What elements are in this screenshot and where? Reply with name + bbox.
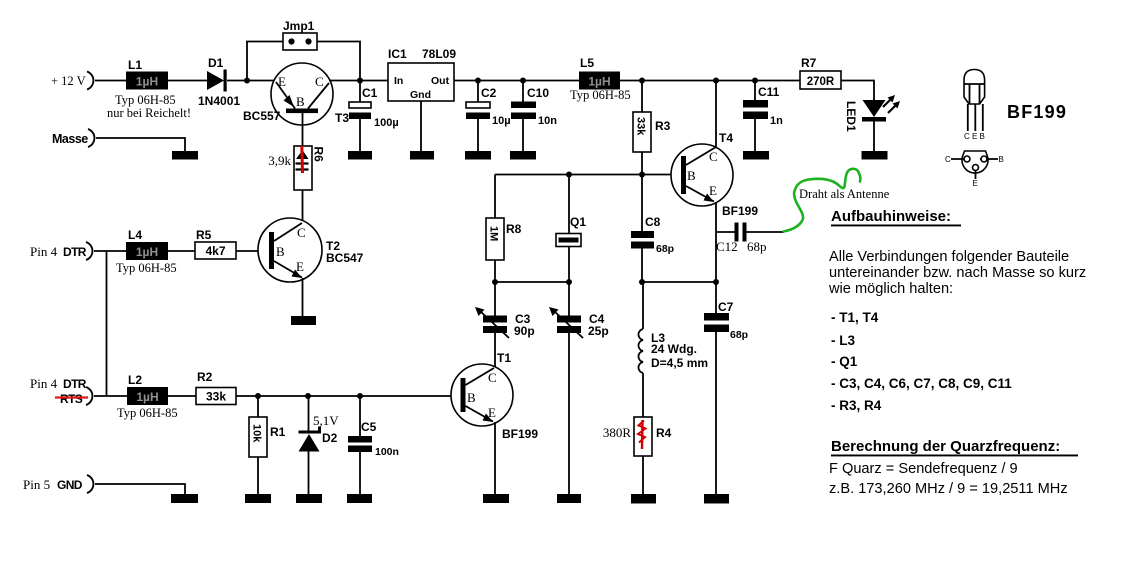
- svg-text:Jmp1: Jmp1: [283, 19, 315, 33]
- wire T2 emitter to ground: [302, 278, 304, 316]
- wire C3 to T1 collector: [494, 333, 496, 368]
- svg-text:F Quarz = Sendefrequenz / 9: F Quarz = Sendefrequenz / 9: [829, 461, 1018, 477]
- svg-text:1N4001: 1N4001: [198, 94, 240, 108]
- svg-text:C5: C5: [361, 420, 377, 434]
- transistor T4 BF199: [671, 131, 758, 218]
- IC1 78L09 regulator: [388, 47, 456, 101]
- ground C5: [347, 494, 372, 503]
- svg-text:In: In: [394, 75, 403, 87]
- text heading Berechnung der Quarzfrequenz: [831, 438, 1078, 456]
- node junction at 247: [244, 78, 250, 84]
- transistor T1 BF199: [451, 351, 538, 441]
- node junction 569,282: [566, 279, 572, 285]
- svg-text:Aufbauhinweise:: Aufbauhinweise:: [831, 208, 951, 225]
- svg-text:E: E: [973, 179, 978, 188]
- wire R5 to T2 base: [236, 250, 269, 252]
- ground Pin5: [171, 494, 198, 503]
- wire Pin5 GND to ground: [95, 484, 185, 494]
- svg-text:R5: R5: [196, 228, 212, 242]
- svg-text:DTR: DTR: [63, 377, 87, 391]
- svg-text:L2: L2: [128, 373, 142, 387]
- svg-text:T4: T4: [719, 131, 733, 145]
- svg-text:Pin 4: Pin 4: [30, 244, 58, 259]
- resistor R2 33k: [196, 370, 236, 405]
- LED LED1: [844, 95, 900, 151]
- svg-text:C: C: [297, 225, 306, 240]
- svg-text:L1: L1: [128, 58, 142, 72]
- capacitor C8 68p: [631, 175, 674, 283]
- svg-text:R7: R7: [801, 56, 817, 70]
- resistor R5 4k7: [195, 228, 236, 259]
- wire R7 to LED: [841, 81, 874, 101]
- capacitor C10 10n: [511, 81, 557, 152]
- svg-text:68p: 68p: [656, 243, 674, 255]
- svg-text:LED1: LED1: [844, 101, 858, 132]
- wire Pin4 DTR to L4: [94, 250, 126, 252]
- svg-text:L4: L4: [128, 228, 142, 242]
- transistor T2 BC547: [258, 218, 364, 282]
- resistor R4 380R: [603, 417, 672, 456]
- resistor R3 33k: [633, 81, 671, 175]
- svg-text:GND: GND: [57, 478, 83, 492]
- svg-text:Pin 4: Pin 4: [30, 376, 58, 391]
- capacitor C12 68p coupling: [716, 223, 784, 255]
- svg-text:+ 12 V: + 12 V: [51, 74, 86, 88]
- node junction 360,396: [357, 393, 363, 399]
- svg-text:T3: T3: [335, 111, 349, 125]
- svg-text:24 Wdg.: 24 Wdg.: [651, 342, 697, 356]
- svg-text:68p: 68p: [730, 329, 748, 341]
- inductor L2: [117, 373, 178, 420]
- svg-text:C12: C12: [716, 239, 738, 254]
- svg-text:E: E: [709, 183, 717, 198]
- svg-text:C1: C1: [362, 86, 378, 100]
- ground C7: [704, 494, 729, 504]
- inductor L5: [570, 56, 631, 102]
- svg-text:C: C: [709, 149, 718, 164]
- svg-text:E: E: [278, 74, 286, 89]
- trimmer capacitor C3 90p: [475, 282, 535, 338]
- svg-text:Gnd: Gnd: [410, 89, 431, 101]
- svg-text:B: B: [687, 168, 696, 183]
- svg-text:10k: 10k: [251, 424, 263, 443]
- svg-text:Berechnung der Quarzfrequenz:: Berechnung der Quarzfrequenz:: [831, 438, 1060, 455]
- node junction at 569,174: [566, 172, 572, 178]
- svg-text:IC1: IC1: [388, 47, 407, 61]
- svg-text:DTR: DTR: [63, 245, 87, 259]
- svg-text:BC557: BC557: [243, 109, 281, 123]
- svg-text:D2: D2: [322, 431, 338, 445]
- svg-text:E: E: [296, 259, 304, 274]
- svg-text:5,1V: 5,1V: [313, 413, 339, 428]
- zener diode D2 5,1V: [299, 396, 340, 494]
- wire bias line y175: [495, 174, 681, 176]
- node junction 308,396: [305, 393, 311, 399]
- node Masse: [52, 129, 94, 147]
- ground T2: [291, 316, 316, 325]
- svg-text:25p: 25p: [588, 324, 609, 338]
- svg-text:100µ: 100µ: [374, 117, 399, 129]
- ground C11: [743, 151, 769, 160]
- svg-text:R1: R1: [270, 425, 286, 439]
- svg-text:C E B: C E B: [964, 132, 985, 141]
- svg-text:90p: 90p: [514, 324, 535, 338]
- svg-text:- C3, C4, C6, C7, C8, C9, C11: - C3, C4, C6, C7, C8, C9, C11: [831, 376, 1012, 391]
- svg-text:C8: C8: [645, 215, 661, 229]
- transistor BF199 package side view: [964, 70, 985, 142]
- node junction at 755: [752, 78, 758, 84]
- svg-text:z.B. 173,260 MHz / 9 = 19,2511: z.B. 173,260 MHz / 9 = 19,2511 MHz: [829, 481, 1068, 497]
- wire line 642-716 y282: [642, 281, 716, 283]
- svg-text:- Q1: - Q1: [831, 354, 858, 369]
- svg-text:Typ 06H-85: Typ 06H-85: [116, 261, 177, 275]
- svg-text:D1: D1: [208, 56, 224, 70]
- wire antenna (green): [784, 169, 861, 232]
- transistor BF199 package bottom view: [945, 151, 1004, 188]
- ground C4: [557, 494, 581, 503]
- node junction at 642,174: [639, 172, 645, 178]
- svg-text:D=4,5 mm: D=4,5 mm: [651, 356, 708, 370]
- svg-text:1µH: 1µH: [136, 390, 158, 404]
- wire R6 to T2 collector: [302, 190, 304, 222]
- ground IC1: [410, 151, 434, 160]
- svg-text:B: B: [276, 244, 285, 259]
- node junction 258,396: [255, 393, 261, 399]
- svg-text:Masse: Masse: [52, 132, 88, 146]
- node Pin 4 DTR: [30, 242, 92, 260]
- svg-text:10n: 10n: [538, 115, 557, 127]
- ground R1: [245, 494, 271, 503]
- svg-text:Typ 06H-85: Typ 06H-85: [117, 406, 178, 420]
- wire C4 to ground: [568, 333, 570, 494]
- ground Masse: [172, 151, 198, 160]
- wire IC1 gnd pin: [420, 101, 422, 151]
- svg-text:B: B: [296, 94, 305, 109]
- wire Pin4 RTS to L2: [94, 395, 127, 397]
- svg-text:nur bei Reichelt!: nur bei Reichelt!: [107, 106, 191, 120]
- svg-text:270R: 270R: [807, 76, 835, 88]
- svg-text:BC547: BC547: [326, 251, 364, 265]
- svg-text:Typ 06H-85: Typ 06H-85: [115, 93, 176, 107]
- wire +12V to L1: [95, 80, 126, 82]
- svg-text:C: C: [945, 155, 951, 164]
- ground C10: [510, 151, 536, 160]
- svg-text:33k: 33k: [635, 117, 647, 136]
- svg-text:380R: 380R: [603, 425, 632, 440]
- wire jumper right leg: [317, 42, 360, 79]
- ground C1: [348, 151, 372, 160]
- ground T1: [483, 494, 509, 503]
- svg-text:R8: R8: [506, 222, 522, 236]
- resistor R6 3,9k: [268, 146, 325, 190]
- ground LED1: [862, 151, 888, 160]
- inductor L3 24 Wdg: [638, 282, 708, 373]
- node junction 642,282: [639, 279, 645, 285]
- node +12V input: [51, 72, 93, 90]
- wire L1 to D1: [168, 80, 207, 82]
- inductor L4: [116, 228, 177, 275]
- text heading Aufbauhinweise: [831, 208, 961, 226]
- svg-text:10µ: 10µ: [492, 115, 511, 127]
- node Pin 4 RTS: [30, 376, 92, 406]
- svg-text:Typ 06H-85: Typ 06H-85: [570, 88, 631, 102]
- text build note paragraph: [828, 249, 1086, 297]
- svg-text:BF199: BF199: [502, 427, 538, 441]
- node junction at 360: [357, 78, 363, 84]
- node Pin 5 GND: [23, 475, 93, 493]
- wire T1 emitter to ground: [494, 422, 496, 494]
- svg-text:Out: Out: [431, 75, 450, 87]
- svg-text:Alle Verbindungen folgender Ba: Alle Verbindungen folgender Bauteile: [829, 249, 1069, 265]
- capacitor C2 10u: [466, 81, 511, 152]
- wire L2 to R2: [168, 395, 196, 397]
- svg-text:Draht als Antenne: Draht als Antenne: [799, 187, 890, 201]
- svg-text:BF199: BF199: [1007, 102, 1067, 122]
- svg-text:1µH: 1µH: [136, 75, 158, 89]
- svg-text:33k: 33k: [206, 390, 226, 404]
- capacitor C7 68p: [704, 282, 748, 494]
- wire tank line y282: [495, 281, 569, 283]
- capacitor C1 100u: [349, 81, 399, 152]
- svg-text:1µH: 1µH: [136, 245, 158, 259]
- svg-text:100n: 100n: [375, 446, 399, 458]
- wire DTR tie vertical: [106, 251, 108, 396]
- ground R4: [631, 494, 656, 504]
- svg-text:BF199: BF199: [722, 204, 758, 218]
- node junction at 523: [520, 78, 526, 84]
- svg-text:R3: R3: [655, 119, 671, 133]
- svg-text:- L3: - L3: [831, 333, 855, 348]
- node junction 716,282: [713, 279, 719, 285]
- svg-text:4k7: 4k7: [205, 244, 225, 258]
- svg-text:R6: R6: [312, 147, 326, 163]
- node junction at 716: [713, 78, 719, 84]
- wire D1 to T3 emitter: [227, 80, 276, 82]
- svg-text:C2: C2: [481, 86, 497, 100]
- crystal Q1: [556, 175, 586, 283]
- svg-text:1n: 1n: [770, 115, 783, 127]
- resistor R7 270R: [800, 56, 841, 89]
- svg-text:wie möglich halten:: wie möglich halten:: [828, 281, 953, 297]
- svg-text:L5: L5: [580, 56, 594, 70]
- wire jumper left leg: [247, 42, 283, 79]
- wire IC1 out to L5: [454, 80, 579, 82]
- svg-text:Q1: Q1: [570, 215, 586, 229]
- wire T4 collector to rail: [715, 81, 717, 148]
- svg-text:C: C: [488, 370, 497, 385]
- wire L5 to R7: [620, 80, 800, 82]
- wire R4 to ground: [642, 456, 644, 494]
- wire T3 base to R6: [302, 113, 304, 146]
- svg-text:68p: 68p: [747, 239, 767, 254]
- resistor R8 1M: [486, 175, 522, 283]
- svg-text:E: E: [488, 405, 496, 420]
- wire Masse to ground: [96, 138, 185, 151]
- svg-text:R2: R2: [197, 370, 213, 384]
- transistor T3 BC557: [243, 63, 349, 125]
- svg-text:R4: R4: [656, 426, 672, 440]
- diode D1 1N4001: [198, 56, 240, 108]
- svg-text:3,9k: 3,9k: [268, 153, 291, 168]
- node junction at 478: [475, 78, 481, 84]
- svg-text:B: B: [999, 155, 1004, 164]
- ground D2: [296, 494, 322, 503]
- svg-text:- R3, R4: - R3, R4: [831, 398, 882, 413]
- capacitor C11 1n: [743, 81, 783, 152]
- wire T3 collector to node: [329, 80, 388, 82]
- jumper Jmp1: [283, 19, 317, 50]
- svg-text:C11: C11: [758, 85, 780, 99]
- resistor R1 10k: [249, 396, 286, 494]
- svg-text:C7: C7: [718, 300, 734, 314]
- wire R2 to T1 base: [236, 395, 461, 397]
- wire L3 to R4: [642, 373, 644, 417]
- svg-text:1M: 1M: [488, 226, 500, 241]
- svg-text:T1: T1: [497, 351, 511, 365]
- node junction 495,282: [492, 279, 498, 285]
- trimmer capacitor C4 25p: [549, 282, 609, 338]
- wire T4 emitter down: [715, 202, 717, 282]
- node junction at 642: [639, 78, 645, 84]
- svg-text:RTS: RTS: [60, 392, 83, 406]
- svg-text:1µH: 1µH: [588, 75, 610, 89]
- svg-text:C: C: [315, 74, 324, 89]
- svg-text:Pin 5: Pin 5: [23, 477, 50, 492]
- capacitor C5 100n: [348, 396, 399, 494]
- svg-text:78L09: 78L09: [422, 47, 456, 61]
- svg-text:untereinander bzw. nach Masse: untereinander bzw. nach Masse so kurz: [829, 265, 1086, 281]
- inductor L1: [107, 58, 191, 120]
- ground C2: [465, 151, 491, 160]
- svg-text:B: B: [467, 390, 476, 405]
- svg-text:- T1, T4: - T1, T4: [831, 310, 879, 325]
- wire L4 to R5: [168, 250, 195, 252]
- svg-text:C10: C10: [527, 86, 549, 100]
